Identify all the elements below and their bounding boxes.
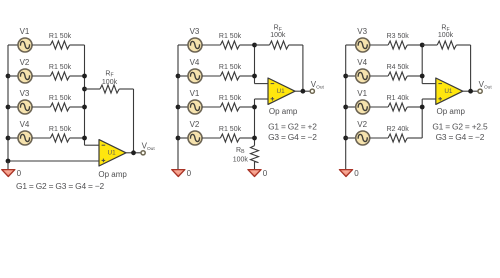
svg-text:G1 = G2 = G3 = G4 = −2: G1 = G2 = G3 = G4 = −2 bbox=[16, 181, 105, 191]
svg-text:U1: U1 bbox=[444, 88, 453, 95]
svg-text:R1 50k: R1 50k bbox=[219, 33, 242, 40]
svg-text:R1 50k: R1 50k bbox=[219, 95, 242, 102]
svg-text:V2: V2 bbox=[190, 120, 200, 129]
svg-text:U1: U1 bbox=[108, 150, 117, 157]
svg-text:100k: 100k bbox=[233, 156, 249, 163]
svg-text:G3 = G4 = −2: G3 = G4 = −2 bbox=[268, 132, 317, 142]
svg-text:V4: V4 bbox=[20, 120, 30, 129]
svg-text:100k: 100k bbox=[438, 32, 454, 39]
svg-text:Op amp: Op amp bbox=[269, 107, 298, 116]
svg-text:G1 = G2 = +2.5: G1 = G2 = +2.5 bbox=[432, 121, 488, 131]
svg-text:V4: V4 bbox=[357, 58, 367, 67]
svg-text:R1 50k: R1 50k bbox=[49, 64, 72, 71]
svg-text:V2: V2 bbox=[20, 58, 30, 67]
svg-text:V3: V3 bbox=[190, 27, 200, 36]
svg-text:R1 40k: R1 40k bbox=[387, 95, 410, 102]
svg-text:R4 50k: R4 50k bbox=[387, 64, 410, 71]
svg-text:0: 0 bbox=[17, 169, 22, 178]
svg-text:V1: V1 bbox=[190, 89, 200, 98]
svg-text:R1 50k: R1 50k bbox=[49, 95, 72, 102]
svg-text:R1 50k: R1 50k bbox=[49, 126, 72, 133]
svg-text:100k: 100k bbox=[102, 79, 118, 86]
svg-text:R1 50k: R1 50k bbox=[49, 33, 72, 40]
svg-text:R1 50k: R1 50k bbox=[219, 126, 242, 133]
svg-text:U1: U1 bbox=[277, 88, 286, 95]
svg-text:V2: V2 bbox=[357, 120, 367, 129]
svg-text:V3: V3 bbox=[20, 89, 30, 98]
svg-text:V3: V3 bbox=[357, 27, 367, 36]
svg-text:G1 = G2 = +2: G1 = G2 = +2 bbox=[268, 121, 317, 131]
svg-text:R3 50k: R3 50k bbox=[387, 33, 410, 40]
svg-text:Op amp: Op amp bbox=[437, 107, 466, 116]
svg-text:Op amp: Op amp bbox=[98, 170, 127, 179]
svg-text:V1: V1 bbox=[20, 27, 30, 36]
svg-text:0: 0 bbox=[187, 169, 192, 178]
svg-text:R2 40k: R2 40k bbox=[387, 126, 410, 133]
svg-text:0: 0 bbox=[354, 169, 359, 178]
svg-text:R1 50k: R1 50k bbox=[219, 64, 242, 71]
svg-text:0: 0 bbox=[263, 169, 268, 178]
svg-text:100k: 100k bbox=[270, 32, 286, 39]
svg-text:G3 = G4 = −2: G3 = G4 = −2 bbox=[436, 132, 485, 142]
svg-text:V4: V4 bbox=[190, 58, 200, 67]
svg-text:V1: V1 bbox=[357, 89, 367, 98]
